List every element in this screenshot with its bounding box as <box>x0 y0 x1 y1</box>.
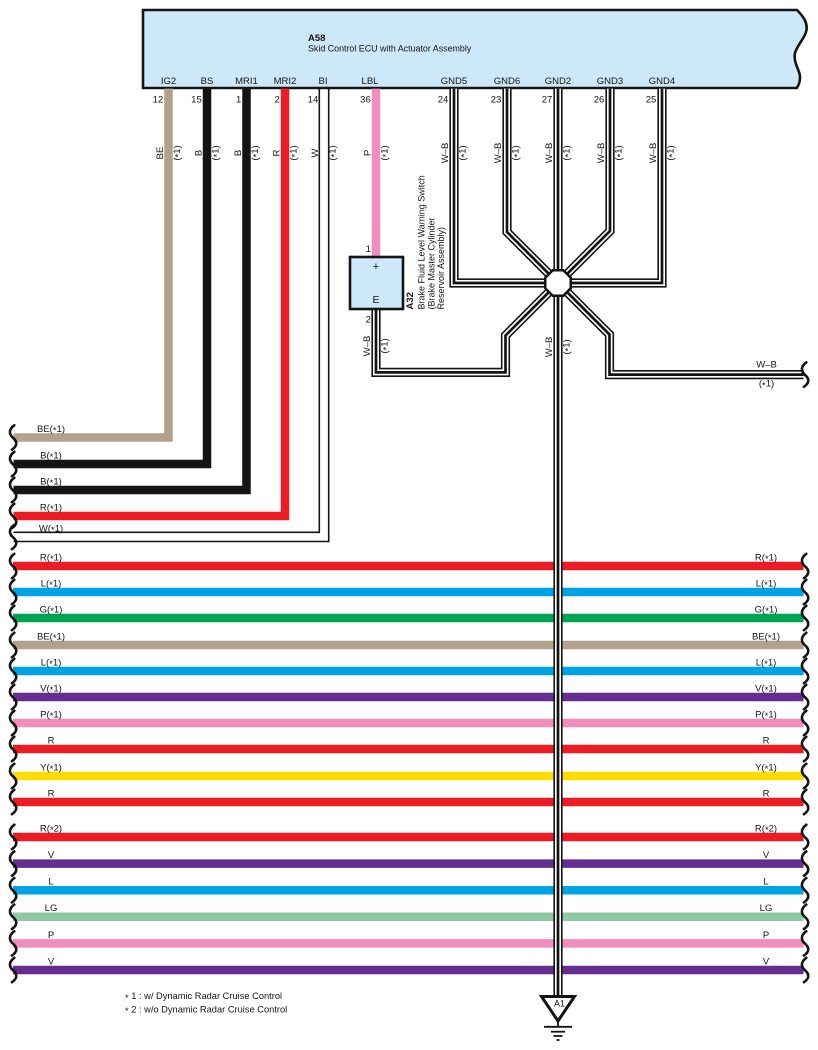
svg-text:L: L <box>763 877 768 888</box>
svg-text:BE: BE <box>155 147 166 160</box>
svg-text:W–B: W–B <box>362 336 373 357</box>
svg-text:(*1): (*1) <box>250 145 263 160</box>
svg-text:23: 23 <box>491 95 502 106</box>
svg-text:W–B: W–B <box>493 143 504 164</box>
svg-text:V: V <box>763 956 770 967</box>
svg-text:(*1): (*1) <box>379 145 392 160</box>
svg-text:GND6: GND6 <box>494 76 520 87</box>
svg-text:B: B <box>193 150 204 156</box>
svg-text:BE(*1): BE(*1) <box>752 631 780 644</box>
svg-text:(*1): (*1) <box>614 145 627 160</box>
svg-text:R: R <box>48 735 55 746</box>
svg-text:G(*1): G(*1) <box>40 604 63 617</box>
svg-text:W(*1): W(*1) <box>39 523 63 536</box>
svg-text:B: B <box>233 150 244 156</box>
svg-text:Y(*1): Y(*1) <box>40 762 62 775</box>
svg-text:LG: LG <box>45 903 58 914</box>
svg-text:GND4: GND4 <box>649 76 675 87</box>
svg-text:MRI1: MRI1 <box>235 76 258 87</box>
svg-text:V(*1): V(*1) <box>755 683 777 696</box>
svg-text:A32: A32 <box>405 292 416 309</box>
svg-text:R(*1): R(*1) <box>755 552 777 565</box>
svg-text:GND3: GND3 <box>597 76 623 87</box>
svg-text:GND2: GND2 <box>545 76 571 87</box>
svg-text:R: R <box>763 735 770 746</box>
svg-text:Skid Control ECU with Actuator: Skid Control ECU with Actuator Assembly <box>308 44 472 54</box>
svg-text:15: 15 <box>191 95 202 106</box>
svg-text:W–B: W–B <box>544 337 555 358</box>
svg-text:W–B: W–B <box>648 143 659 164</box>
svg-text:P: P <box>48 930 54 941</box>
svg-text:R(*1): R(*1) <box>40 552 62 565</box>
svg-text:P: P <box>362 150 373 156</box>
svg-text:B(*1): B(*1) <box>40 476 62 489</box>
svg-text:Y(*1): Y(*1) <box>755 762 777 775</box>
svg-text:V: V <box>763 850 770 861</box>
svg-text:L(*1): L(*1) <box>41 657 62 670</box>
svg-text:MRI2: MRI2 <box>274 76 297 87</box>
svg-text:Brake Fluid Level Warning Swit: Brake Fluid Level Warning Switch <box>417 175 427 309</box>
svg-text:A1: A1 <box>554 999 565 1009</box>
svg-text:2: 2 <box>366 315 371 326</box>
svg-text:(*1): (*1) <box>288 145 301 160</box>
svg-text:R: R <box>48 788 55 799</box>
svg-text:Reservoir Assembly): Reservoir Assembly) <box>436 227 446 310</box>
svg-text:IG2: IG2 <box>161 76 176 87</box>
svg-text:LBL: LBL <box>362 76 379 87</box>
svg-text:P(*1): P(*1) <box>40 709 62 722</box>
svg-text:(*1): (*1) <box>562 145 575 160</box>
svg-text:(*1): (*1) <box>511 145 524 160</box>
svg-text:P: P <box>763 930 769 941</box>
svg-text:G(*1): G(*1) <box>755 604 778 617</box>
svg-text:14: 14 <box>308 95 319 106</box>
svg-text:BI: BI <box>319 76 328 87</box>
svg-text:L(*1): L(*1) <box>756 657 777 670</box>
svg-text:LG: LG <box>760 903 773 914</box>
svg-text:W: W <box>310 148 321 157</box>
svg-text:P(*1): P(*1) <box>755 709 777 722</box>
svg-text:V(*1): V(*1) <box>40 683 62 696</box>
svg-text:L(*1): L(*1) <box>756 578 777 591</box>
svg-text:W–B: W–B <box>756 359 777 370</box>
svg-text:BE(*1): BE(*1) <box>37 424 65 437</box>
svg-text:R: R <box>271 149 282 156</box>
svg-text:36: 36 <box>360 95 371 106</box>
svg-text:B(*1): B(*1) <box>40 450 62 463</box>
svg-text:BE(*1): BE(*1) <box>37 631 65 644</box>
svg-text:1: 1 <box>366 244 371 255</box>
svg-text:A58: A58 <box>308 33 325 44</box>
svg-text:(*1): (*1) <box>328 145 341 160</box>
svg-text:W–B: W–B <box>440 143 451 164</box>
svg-text:GND5: GND5 <box>441 76 467 87</box>
svg-text:W–B: W–B <box>544 143 555 164</box>
svg-text:R(*1): R(*1) <box>40 502 62 515</box>
svg-text:24: 24 <box>438 95 449 106</box>
svg-text:L(*1): L(*1) <box>41 578 62 591</box>
svg-text:+: + <box>373 261 379 273</box>
svg-text:L: L <box>48 877 53 888</box>
svg-text:BS: BS <box>201 76 214 87</box>
svg-text:(*1): (*1) <box>380 338 393 353</box>
svg-text:2: 2 <box>274 95 279 106</box>
svg-text:V: V <box>48 956 55 967</box>
svg-text:12: 12 <box>153 95 164 106</box>
svg-text:R(*2): R(*2) <box>40 823 62 836</box>
svg-text:(*1): (*1) <box>666 145 679 160</box>
svg-text:(*1): (*1) <box>210 145 223 160</box>
svg-text:V: V <box>48 850 55 861</box>
svg-text:(*1): (*1) <box>458 145 471 160</box>
svg-text:(*1): (*1) <box>562 339 575 354</box>
svg-text:R(*2): R(*2) <box>755 823 777 836</box>
svg-text:(*1): (*1) <box>172 145 185 160</box>
svg-text:(Brake Master Cylinder: (Brake Master Cylinder <box>426 217 436 309</box>
svg-text:25: 25 <box>646 95 657 106</box>
svg-text:26: 26 <box>594 95 605 106</box>
svg-text:R: R <box>763 788 770 799</box>
svg-text:W–B: W–B <box>596 143 607 164</box>
svg-text:27: 27 <box>542 95 553 106</box>
svg-text:E: E <box>372 294 379 306</box>
svg-text:1: 1 <box>236 95 241 106</box>
svg-text:(*1): (*1) <box>759 379 774 392</box>
